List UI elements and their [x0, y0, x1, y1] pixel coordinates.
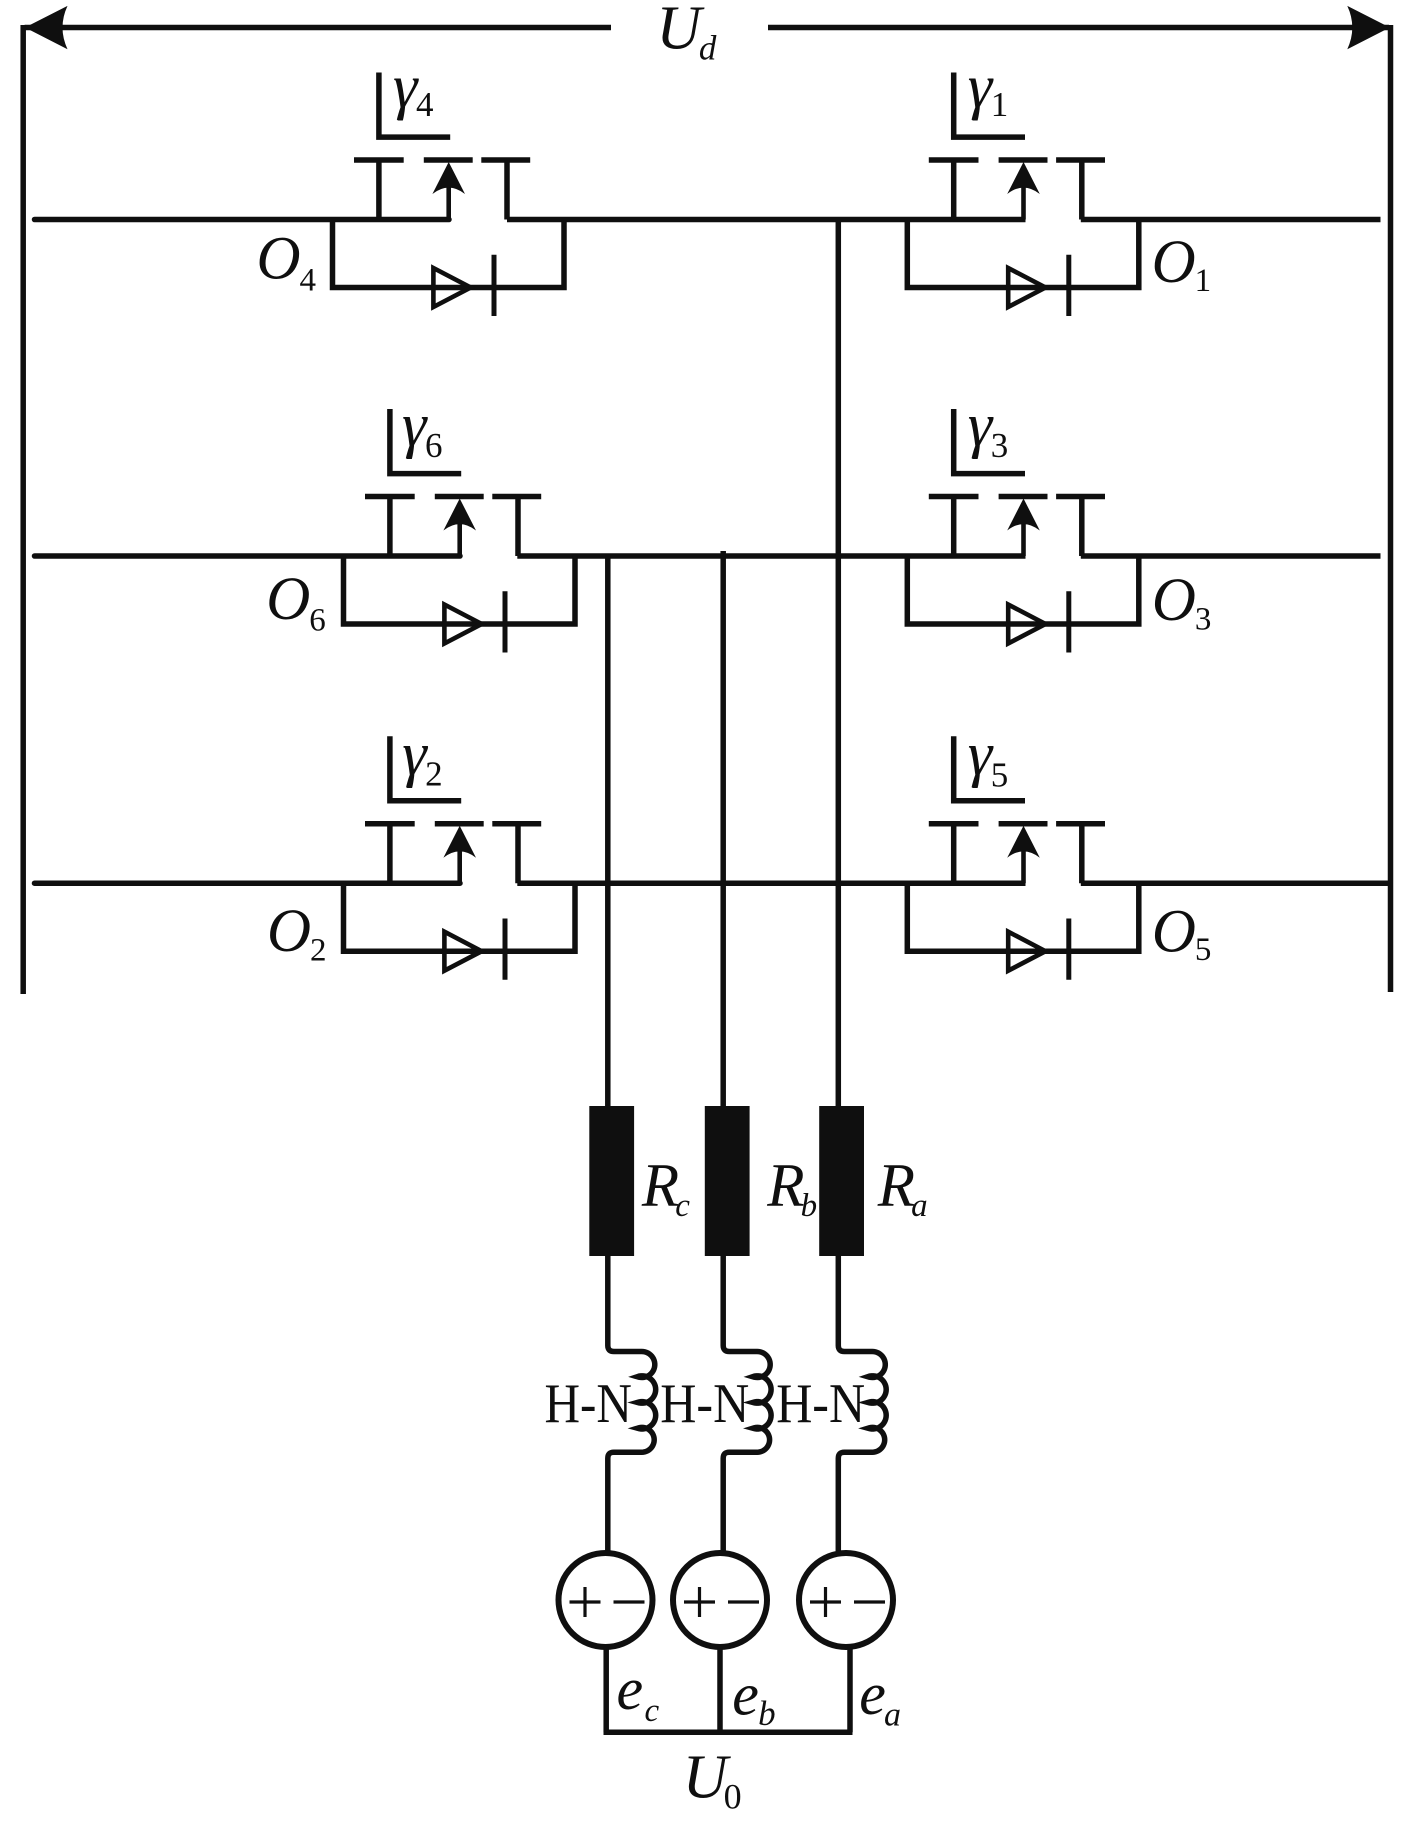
svg-text:γ5: γ5: [968, 721, 1008, 795]
inductor Lb (winding H-N): [723, 1256, 771, 1551]
svg-text:γ2: γ2: [402, 720, 442, 793]
EMF source ea (circle with + -): [799, 1553, 893, 1647]
wire eb to neutral bus: [717, 1647, 723, 1732]
wire row 1 segment 1: [35, 217, 450, 223]
svg-text:eb: eb: [732, 1662, 775, 1734]
inductor La (winding H-N): [838, 1256, 886, 1551]
wire row 1 segment 3: [1081, 217, 1381, 223]
svg-text:Ra: Ra: [877, 1152, 928, 1224]
transistor O2 (MOSFET, gate signal g2): [365, 736, 541, 883]
right dc bus rail: [1388, 25, 1394, 992]
svg-text:O2: O2: [267, 898, 326, 969]
diode D6 (antiparallel) with loop wire: [344, 556, 576, 653]
svg-text:Rb: Rb: [766, 1152, 817, 1224]
wire ea to neutral bus: [847, 1647, 853, 1732]
diode D3 (antiparallel) with loop wire: [907, 556, 1139, 653]
transistor O3 (MOSFET, gate signal g3): [929, 409, 1105, 556]
svg-text:H-N: H-N: [660, 1373, 749, 1435]
svg-text:H-N: H-N: [776, 1373, 865, 1435]
svg-text:U0: U0: [683, 1744, 742, 1817]
wire ec to neutral bus: [603, 1647, 609, 1732]
left dc bus rail: [20, 25, 26, 994]
dimension arrowhead left: [25, 6, 68, 49]
svg-text:Rc: Rc: [641, 1152, 690, 1224]
diode D4 (antiparallel) with loop wire: [333, 220, 565, 317]
resistor Ra: [819, 1106, 864, 1256]
resistor Rc: [589, 1106, 634, 1256]
svg-text:γ6: γ6: [402, 391, 442, 465]
svg-text:O3: O3: [1152, 567, 1211, 638]
wire row 3 segment 2: [517, 880, 1025, 886]
svg-text:γ4: γ4: [393, 53, 433, 124]
transistor O5 (MOSFET, gate signal g5): [929, 736, 1105, 883]
wire row 2 segment 2: [517, 553, 1025, 559]
wire row 3 segment 3: [1081, 880, 1393, 886]
transistor O1 (MOSFET, gate signal g1): [929, 73, 1105, 220]
diode D1 (antiparallel) with loop wire: [907, 220, 1139, 317]
diode D5 (antiparallel) with loop wire: [907, 883, 1139, 980]
svg-text:γ1: γ1: [968, 53, 1008, 124]
dimension arrowhead right: [1347, 6, 1390, 49]
resistor Rb: [705, 1106, 750, 1256]
wire phase c (row 2 to resistor Rc): [605, 556, 611, 1106]
svg-text:ec: ec: [617, 1656, 660, 1729]
transistor O4 (MOSFET, gate signal g4): [354, 73, 530, 220]
wire phase a (row 1 to resistor Ra): [836, 220, 842, 1107]
svg-text:ea: ea: [859, 1661, 901, 1734]
wire row 3 segment 1: [35, 880, 461, 886]
transistor O6 (MOSFET, gate signal g6): [365, 409, 541, 556]
EMF source eb (circle with + -): [673, 1553, 767, 1647]
svg-text:O6: O6: [266, 566, 325, 639]
svg-text:O4: O4: [257, 226, 316, 299]
svg-text:O5: O5: [1152, 899, 1211, 969]
svg-text:H-N: H-N: [545, 1373, 632, 1435]
wire row 1 segment 2: [507, 217, 1026, 223]
svg-text:γ3: γ3: [968, 391, 1008, 465]
EMF source ec (circle with + -): [559, 1553, 653, 1647]
wire row 2 segment 3: [1081, 553, 1381, 559]
svg-text:Ud: Ud: [656, 0, 716, 67]
dimension line Ud right segment: [768, 25, 1389, 31]
svg-text:O1: O1: [1152, 229, 1211, 299]
inductor Lc (winding H-N): [608, 1256, 656, 1551]
neutral bus wire U0: [604, 1730, 853, 1736]
dimension line Ud left segment: [25, 25, 611, 31]
wire row 2 segment 1: [35, 553, 461, 559]
diode D2 (antiparallel) with loop wire: [344, 883, 576, 980]
wire phase b (row 2 to resistor Rb): [720, 551, 726, 1106]
